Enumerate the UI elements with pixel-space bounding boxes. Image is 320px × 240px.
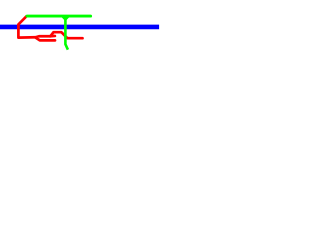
wire: green trace vertical with bottom tail: [65, 17, 68, 50]
wire: red stub segment upper: [50, 35, 55, 38]
wire: red trace lower branch stub: [35, 38, 55, 41]
wire: red trace left (diagonal from green junction, vertical through blue, corner to horizontal): [18, 16, 35, 38]
wire: red trace upper branch with tuning bump, ends right: [35, 32, 82, 38]
wire: blue bus trace horizontal: [0, 25, 159, 30]
wire: green trace horizontal top: [27, 15, 91, 18]
junction: green T fillet: [62, 17, 70, 20]
